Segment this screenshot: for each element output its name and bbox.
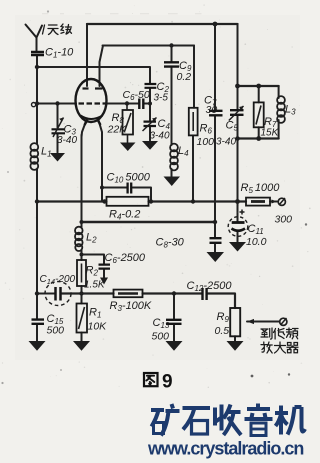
svg-text:500: 500 xyxy=(47,325,65,337)
svg-text:3-40: 3-40 xyxy=(57,135,77,146)
svg-text:10K: 10K xyxy=(88,321,108,333)
svg-text:C6-2500: C6-2500 xyxy=(105,252,146,265)
svg-text:1.5K: 1.5K xyxy=(84,280,106,291)
svg-text:500: 500 xyxy=(152,331,170,343)
svg-text:3-40: 3-40 xyxy=(150,131,170,142)
svg-text:22K: 22K xyxy=(107,124,128,136)
svg-text:0.2: 0.2 xyxy=(177,71,192,83)
svg-text:C14-200: C14-200 xyxy=(40,274,76,286)
svg-text:30: 30 xyxy=(206,104,218,116)
svg-text:C8-30: C8-30 xyxy=(156,237,185,250)
svg-text:C12-2500: C12-2500 xyxy=(187,280,233,293)
svg-text:www.crystalradio.cn: www.crystalradio.cn xyxy=(147,439,303,459)
svg-text:3-40: 3-40 xyxy=(216,137,236,148)
svg-text:R51000: R51000 xyxy=(241,182,281,195)
svg-text:9: 9 xyxy=(162,372,173,393)
svg-text:R4-0.2: R4-0.2 xyxy=(109,209,140,222)
svg-text:100: 100 xyxy=(197,136,215,148)
svg-text:R3-100K: R3-100K xyxy=(110,300,152,313)
svg-text:C6-50: C6-50 xyxy=(123,89,150,102)
svg-text:0.5: 0.5 xyxy=(215,325,230,337)
svg-text:15K: 15K xyxy=(261,128,280,139)
svg-text:C1-10: C1-10 xyxy=(45,47,74,60)
svg-text:3-5: 3-5 xyxy=(154,93,169,104)
svg-text:C105000: C105000 xyxy=(107,172,151,185)
svg-text:300: 300 xyxy=(275,214,293,226)
